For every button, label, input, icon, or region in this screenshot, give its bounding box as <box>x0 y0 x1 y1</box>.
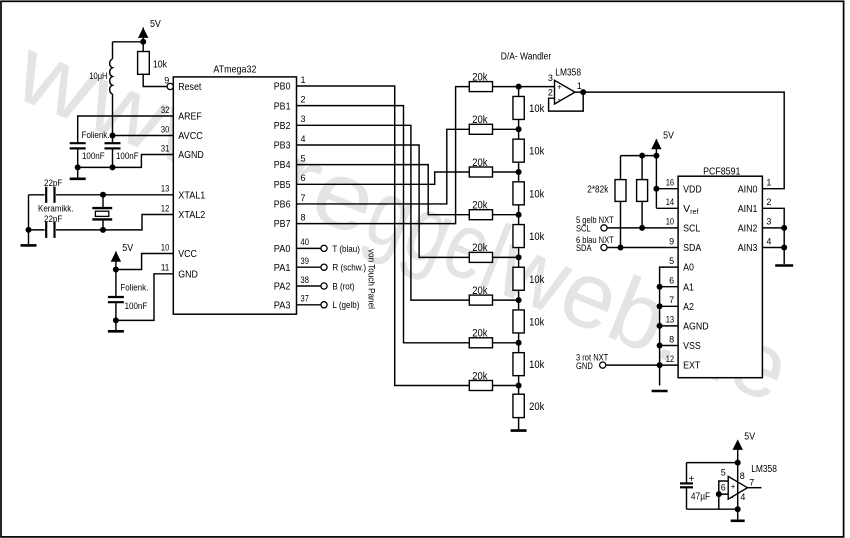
svg-text:11: 11 <box>161 263 169 273</box>
power 5V op-amp <box>733 431 756 510</box>
svg-text:2*82k: 2*82k <box>587 184 608 195</box>
svg-text:GND: GND <box>576 361 593 371</box>
resistor 10k chain3 <box>513 172 545 215</box>
svg-text:32: 32 <box>161 105 169 115</box>
svg-text:8: 8 <box>740 471 745 481</box>
node A1 junction <box>657 284 663 290</box>
node XTAL1 crystal junction <box>100 192 106 198</box>
svg-text:SCL: SCL <box>683 223 700 235</box>
wire PB2 to ladder <box>297 125 470 300</box>
svg-text:PA2: PA2 <box>274 281 291 293</box>
svg-text:10k: 10k <box>529 231 545 243</box>
capacitor 100nF AREF <box>70 143 105 167</box>
node bottom rail junction <box>735 506 741 512</box>
node AVCC junction <box>110 133 116 139</box>
svg-text:10k: 10k <box>529 146 545 158</box>
svg-text:5V: 5V <box>150 18 161 30</box>
svg-text:14: 14 <box>666 197 674 207</box>
svg-text:+: + <box>689 474 695 485</box>
svg-text:EXT: EXT <box>683 360 701 372</box>
ground ladder <box>511 429 527 432</box>
node 5V opamp junction <box>735 460 741 466</box>
svg-text:20k: 20k <box>472 328 488 340</box>
svg-text:T (blau): T (blau) <box>332 244 360 255</box>
IC ATmega32 <box>173 63 296 314</box>
svg-text:22pF: 22pF <box>44 178 62 189</box>
node ladder junction 4 <box>516 212 522 218</box>
node cap junction 2 <box>75 164 81 170</box>
svg-text:6: 6 <box>669 276 674 286</box>
wire GND <box>116 274 173 321</box>
PCF8591 left pin labels <box>666 178 709 372</box>
svg-text:2: 2 <box>548 87 553 97</box>
wire 5V to inductor <box>113 41 144 43</box>
wire U1 output to AIN0 <box>575 92 784 189</box>
wire tie to rail <box>718 494 720 509</box>
pin SCL NXT circle <box>576 215 614 233</box>
svg-text:4: 4 <box>740 492 745 502</box>
wire AGND <box>78 155 174 168</box>
svg-text:1: 1 <box>766 178 771 188</box>
watermark www.freggelweb.de <box>1 16 804 422</box>
svg-text:SDA: SDA <box>683 242 701 254</box>
wire PB1 to ladder <box>297 106 470 343</box>
svg-text:LM358: LM358 <box>751 464 777 475</box>
svg-text:10k: 10k <box>529 188 545 200</box>
svg-text:3: 3 <box>548 73 553 83</box>
node ladder junction 7 <box>516 340 522 346</box>
node xtal ground junction <box>26 227 32 233</box>
svg-text:5V: 5V <box>663 129 674 141</box>
svg-text:7: 7 <box>749 478 754 488</box>
svg-text:SCL: SCL <box>576 224 591 234</box>
node GND junction <box>113 317 119 323</box>
node ladder junction 2 <box>516 126 522 132</box>
svg-text:10k: 10k <box>153 58 168 70</box>
svg-text:1: 1 <box>301 75 306 85</box>
svg-text:9: 9 <box>669 236 674 246</box>
PCF8591 right pin labels <box>738 178 772 255</box>
resistor 10k chain1 <box>513 87 545 130</box>
pin PA2 open circle and label <box>321 281 355 292</box>
ground AREF caps <box>70 167 86 178</box>
svg-text:7: 7 <box>301 193 306 203</box>
svg-text:30: 30 <box>161 124 169 134</box>
svg-text:R (schw.): R (schw.) <box>332 263 366 274</box>
resistor 20k row4 <box>469 200 518 220</box>
svg-text:VDD: VDD <box>683 183 702 195</box>
resistor 20k row6 <box>469 285 518 305</box>
wire SDA <box>607 247 678 249</box>
resistor 10k chain2 <box>513 129 545 172</box>
wire 5V to cap <box>687 462 738 464</box>
node ladder junction 5 <box>516 254 522 260</box>
svg-text:PCF8591: PCF8591 <box>703 166 740 178</box>
wire inductor to AVCC <box>112 94 114 136</box>
svg-text:PA1: PA1 <box>274 262 291 274</box>
node ladder junction 6 <box>516 297 522 303</box>
resistor 82k SCL pullup <box>637 156 648 228</box>
svg-text:47µF: 47µF <box>691 491 710 502</box>
svg-text:PA3: PA3 <box>274 299 291 311</box>
wire AIN2 stub <box>762 227 784 229</box>
node ladder junction 1 <box>516 84 522 90</box>
wire SCL <box>607 227 678 229</box>
ground AIN rail <box>775 264 793 267</box>
svg-text:AGND: AGND <box>178 149 204 161</box>
power 5V PCF8591 <box>651 129 674 208</box>
node 5V rail junction A <box>653 153 659 159</box>
svg-text:12: 12 <box>666 354 674 364</box>
svg-text:PB4: PB4 <box>274 159 291 171</box>
node input tie junction <box>716 491 722 497</box>
svg-text:38: 38 <box>301 275 309 285</box>
svg-text:AIN3: AIN3 <box>738 242 758 254</box>
resistor 10k chain7 <box>513 343 545 386</box>
svg-text:10k: 10k <box>529 103 545 115</box>
svg-text:13: 13 <box>161 184 169 194</box>
svg-text:5V: 5V <box>122 242 133 254</box>
svg-text:PB7: PB7 <box>274 218 291 230</box>
wire PB3 to ladder <box>297 145 470 257</box>
node ladder junction 3 <box>516 169 522 175</box>
wire bottom rail <box>687 508 738 510</box>
node AGND junction <box>657 323 663 329</box>
svg-text:-: - <box>558 94 561 103</box>
capacitor 100nF VCC <box>108 270 148 321</box>
svg-text:4: 4 <box>301 134 306 144</box>
svg-text:20k: 20k <box>472 370 488 382</box>
node VCC junction <box>113 267 119 273</box>
inductor 10uH <box>89 42 112 94</box>
resistor 20k row7 <box>469 328 518 348</box>
svg-text:20k: 20k <box>472 71 488 83</box>
svg-text:XTAL2: XTAL2 <box>178 209 205 221</box>
wire PA2 <box>297 285 321 287</box>
wire PA3 <box>297 304 321 306</box>
node A2 junction <box>657 303 663 309</box>
svg-text:D/A- Wandler: D/A- Wandler <box>501 52 552 63</box>
wire input tie <box>719 481 728 494</box>
capacitor 22pF bottom <box>38 204 74 238</box>
svg-text:von Touch Panel: von Touch Panel <box>366 249 377 309</box>
wire feedback U1 <box>549 92 584 111</box>
svg-text:16: 16 <box>666 178 674 188</box>
svg-text:10k: 10k <box>529 274 545 286</box>
node AIN3 junction <box>781 245 787 251</box>
wire PA1 <box>297 266 321 268</box>
wire AREF <box>78 116 174 143</box>
svg-text:AIN2: AIN2 <box>738 223 758 235</box>
svg-text:31: 31 <box>161 143 169 153</box>
svg-text:VCC: VCC <box>178 248 197 260</box>
wire AGND stub <box>660 325 679 327</box>
ground VCC cap <box>108 320 124 331</box>
svg-text:ATmega32: ATmega32 <box>213 63 256 75</box>
pin PA0 open circle and label <box>321 244 360 255</box>
wire AVCC <box>113 135 174 137</box>
node VSS junction <box>657 343 663 349</box>
svg-text:PB1: PB1 <box>274 100 291 112</box>
svg-text:Reset: Reset <box>178 81 201 93</box>
svg-text:20k: 20k <box>472 242 488 254</box>
svg-text:5V: 5V <box>744 431 755 443</box>
resistor 20k termination <box>513 386 545 430</box>
resistor 20k row5 <box>469 242 518 262</box>
wire A2 stub <box>660 305 679 307</box>
wire EXT NXT <box>606 364 660 366</box>
resistor 10k chain6 <box>513 300 545 343</box>
node U1 output junction <box>580 89 586 95</box>
node AIN2 junction <box>781 225 787 231</box>
svg-text:GND: GND <box>178 268 198 280</box>
svg-text:13: 13 <box>666 315 674 325</box>
svg-text:Folienk.: Folienk. <box>120 283 148 294</box>
svg-text:4: 4 <box>766 236 771 246</box>
wire VDD <box>656 188 678 190</box>
svg-text:20k: 20k <box>472 285 488 297</box>
ATmega32 right pin labels <box>274 75 309 312</box>
wire AIN3 stub <box>762 247 784 249</box>
wire Vref <box>656 207 678 209</box>
ground PCF rail <box>652 390 668 393</box>
svg-text:20k: 20k <box>472 157 488 169</box>
resistor 20k row2 <box>469 114 518 134</box>
wire PB7 to ladder <box>297 87 470 224</box>
resistor 20k row8 <box>469 370 518 390</box>
ATmega32 left pin labels <box>161 75 206 280</box>
svg-text:10k: 10k <box>529 316 545 328</box>
node SCL pullup junction <box>639 225 645 231</box>
power 5V VCC <box>111 242 133 270</box>
wire PA0 <box>297 247 321 249</box>
svg-text:39: 39 <box>301 256 309 266</box>
svg-text:AIN1: AIN1 <box>738 203 758 215</box>
wire address ground rail <box>660 267 679 385</box>
ground op-amp <box>731 509 745 521</box>
svg-text:AVCC: AVCC <box>178 130 203 142</box>
node 5V rail junction B <box>639 153 645 159</box>
resistor 10k chain5 <box>513 257 545 300</box>
node ladder junction 8 <box>516 383 522 389</box>
pin SDA NXT circle <box>576 235 614 253</box>
op-amp U2 LM358 unused half <box>721 464 777 502</box>
svg-text:PB0: PB0 <box>274 81 291 93</box>
svg-text:8: 8 <box>301 212 306 222</box>
svg-text:1: 1 <box>577 81 582 91</box>
svg-text:100nF: 100nF <box>82 151 105 162</box>
svg-text:VSS: VSS <box>683 340 701 352</box>
svg-text:6: 6 <box>721 482 726 492</box>
svg-text:5: 5 <box>669 256 674 266</box>
svg-text:20k: 20k <box>472 114 488 126</box>
crystal quartz <box>92 195 112 230</box>
wire A1 stub <box>660 286 679 288</box>
svg-text:PB2: PB2 <box>274 120 291 132</box>
svg-text:XTAL1: XTAL1 <box>178 189 205 201</box>
svg-text:22pF: 22pF <box>44 214 62 225</box>
pin PA3 open circle and label <box>321 300 360 311</box>
svg-text:3: 3 <box>766 217 771 227</box>
pin EXT NXT circle <box>576 352 609 371</box>
svg-text:10k: 10k <box>529 359 545 371</box>
wire xtal left rail <box>28 195 30 230</box>
wire ladder to op-amp <box>519 86 555 88</box>
capacitor 47uF electrolytic <box>680 463 710 510</box>
wire VSS stub <box>660 345 679 347</box>
ground crystal <box>21 230 37 246</box>
node VDD junction <box>653 186 659 192</box>
wire PB5 to ladder <box>297 172 470 184</box>
svg-text:20k: 20k <box>529 401 545 413</box>
wire PB0 to ladder <box>297 86 470 386</box>
pin Reset open circle <box>167 83 173 89</box>
wire U2 output <box>747 487 761 489</box>
resistor 10k chain4 <box>513 215 545 258</box>
wire PB4 to ladder <box>297 165 470 215</box>
svg-text:PB3: PB3 <box>274 140 291 152</box>
node 5V junction <box>140 39 146 45</box>
wire EXT stub <box>660 364 679 366</box>
svg-text:B (rot): B (rot) <box>332 281 354 292</box>
svg-text:40: 40 <box>301 237 309 247</box>
svg-text:3: 3 <box>301 114 306 124</box>
svg-text:AGND: AGND <box>683 321 709 333</box>
svg-text:SDA: SDA <box>576 243 592 253</box>
svg-text:Folienk.: Folienk. <box>82 130 110 141</box>
wire AIN1 rail <box>762 208 784 264</box>
svg-text:10: 10 <box>161 242 169 252</box>
svg-text:Keramikk.: Keramikk. <box>38 204 74 215</box>
svg-text:LM358: LM358 <box>555 68 581 79</box>
svg-text:PB5: PB5 <box>274 179 291 191</box>
svg-text:2: 2 <box>301 94 306 104</box>
wire VCC <box>116 254 173 270</box>
resistor 20k row1 <box>469 71 518 91</box>
svg-text:5: 5 <box>721 468 726 478</box>
wire XTAL1 <box>29 194 174 196</box>
svg-text:PB6: PB6 <box>274 199 291 211</box>
node crystal bottom junction <box>100 227 106 233</box>
wire 5V top rail <box>621 155 657 157</box>
svg-text:20k: 20k <box>472 200 488 212</box>
svg-text:A0: A0 <box>683 262 694 274</box>
svg-text:5: 5 <box>301 153 306 163</box>
wire XTAL2 <box>29 215 174 230</box>
node SDA pullup junction <box>618 245 624 251</box>
svg-text:6: 6 <box>301 173 306 183</box>
svg-text:8: 8 <box>669 334 674 344</box>
svg-text:7: 7 <box>669 295 674 305</box>
svg-text:37: 37 <box>301 294 309 304</box>
svg-text:100nF: 100nF <box>116 151 139 162</box>
IC PCF8591 <box>678 166 762 378</box>
svg-text:AREF: AREF <box>178 111 202 123</box>
svg-text:2: 2 <box>766 197 771 207</box>
power 5V top-left <box>138 18 161 42</box>
svg-text:+: + <box>731 482 736 491</box>
node EXT junction <box>657 362 663 368</box>
resistor 82k SDA pullup <box>615 156 626 248</box>
svg-text:10: 10 <box>666 217 674 227</box>
svg-text:10µH: 10µH <box>89 71 107 81</box>
svg-text:100nF: 100nF <box>125 301 148 312</box>
svg-text:AIN0: AIN0 <box>738 183 758 195</box>
svg-text:A1: A1 <box>683 281 694 293</box>
resistor 20k row3 <box>469 157 518 177</box>
capacitor 22pF top <box>44 178 62 203</box>
pin PA1 open circle and label <box>321 263 366 274</box>
svg-text:PA0: PA0 <box>274 243 291 255</box>
svg-text:L (gelb): L (gelb) <box>332 300 359 311</box>
op-amp U1 LM358 <box>548 68 582 105</box>
capacitor 100nF AVCC <box>82 130 139 168</box>
svg-text:12: 12 <box>161 203 169 213</box>
svg-text:+: + <box>557 82 562 91</box>
wire PB6 to ladder <box>297 129 470 204</box>
node cap junction 1 <box>110 164 116 170</box>
resistor 10k pull-up <box>138 42 168 87</box>
svg-text:A2: A2 <box>683 301 694 313</box>
